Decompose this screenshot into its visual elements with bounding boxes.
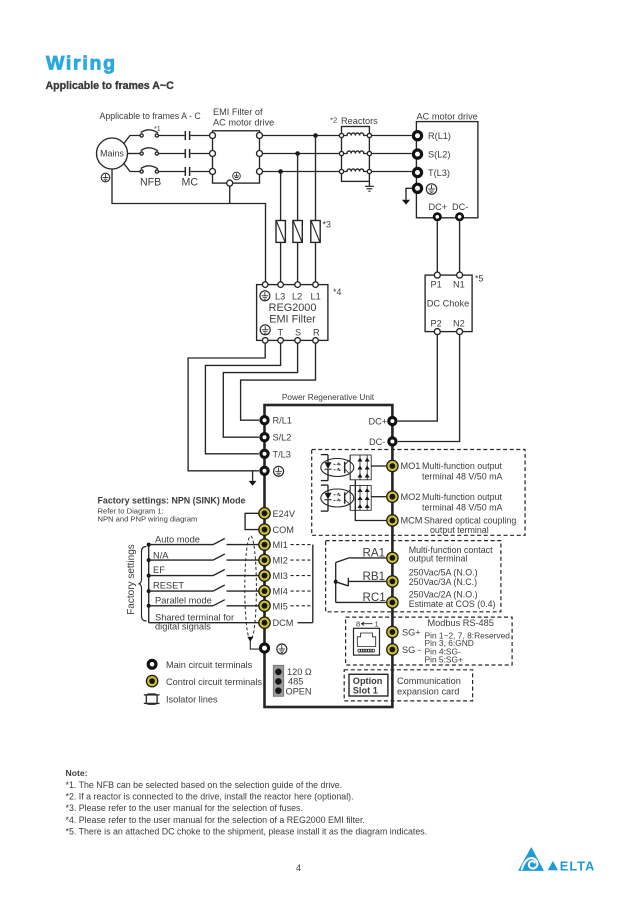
terminal R/L1 [261, 416, 292, 426]
svg-text:Factory settings: Factory settings [126, 544, 137, 615]
shield cable dashed oval [245, 536, 257, 640]
svg-text:MI3: MI3 [273, 571, 288, 581]
wire jumper E24V to COM [245, 513, 259, 529]
wire NFB to MC row2 [159, 153, 185, 155]
svg-text:SG+: SG+ [402, 628, 421, 638]
svg-text:T: T [278, 328, 284, 338]
svg-text:S: S [295, 328, 301, 338]
svg-text:*5: *5 [475, 274, 483, 284]
switch N/A [149, 550, 259, 560]
svg-text:RA1: RA1 [363, 547, 386, 560]
switch Auto mode [149, 535, 259, 545]
svg-text:terminal 48 V/50 mA: terminal 48 V/50 mA [422, 472, 502, 482]
svg-text:NPN and PNP wiring diagram: NPN and PNP wiring diagram [98, 515, 198, 524]
relay contact RC1 wire [336, 601, 386, 603]
wire function select bus vertical [312, 545, 314, 623]
svg-text:T(L3): T(L3) [428, 168, 450, 178]
fuse F3 [311, 221, 320, 243]
terminal RA1 [363, 547, 399, 564]
breaker NFB pole3 [140, 166, 158, 173]
svg-text:NFB: NFB [140, 177, 161, 189]
wire DC+ to choke P1 [436, 221, 438, 272]
terminal MI1 [259, 539, 288, 550]
terminal MI2 [259, 554, 288, 565]
reactor L1 coil [339, 133, 371, 138]
svg-text:RESET: RESET [153, 580, 184, 590]
ground arrow AC drive [402, 200, 410, 205]
svg-text:ELTA: ELTA [560, 859, 596, 873]
Power Regenerative Unit box [265, 392, 393, 707]
wire drop to fuse F1 [280, 172, 282, 221]
breaker NFB pole2 [140, 148, 158, 155]
wire MC to EMI filter row2 [190, 153, 209, 155]
reactor box *2 [342, 127, 370, 182]
svg-text:L3: L3 [275, 292, 285, 302]
terminal R(L1) [413, 131, 451, 141]
svg-text:MO2: MO2 [401, 492, 421, 502]
node switch bus MI3 [147, 574, 151, 578]
switch RESET [149, 580, 259, 591]
svg-text:output terminal: output terminal [430, 525, 489, 535]
legend control circuit terminal [146, 675, 262, 686]
svg-text:250Vac/5A (N.O.): 250Vac/5A (N.O.) [409, 568, 478, 578]
svg-text:Control circuit terminals: Control circuit terminals [166, 677, 262, 687]
svg-text:MC: MC [182, 177, 199, 189]
terminator block 120ohm 485 OPEN [273, 665, 312, 696]
svg-text:*5. There is an attached DC ch: *5. There is an attached DC choke to the… [66, 826, 428, 836]
svg-text:EMI Filter: EMI Filter [269, 314, 316, 326]
ground PE symbol at mains [101, 173, 110, 182]
wire reactors to AC drive row1 [372, 135, 412, 137]
svg-text:MO1: MO1 [401, 461, 421, 471]
wire reactors to AC drive row2 [372, 153, 412, 155]
terminal MI5 [259, 600, 288, 611]
terminal RB1 [363, 570, 399, 587]
switch EF [149, 565, 259, 576]
wire fuse F1 to REG2000 L3 [280, 242, 282, 282]
fuse F1 [276, 221, 285, 243]
terminal DC- of AC drive [456, 214, 462, 220]
wire EMI to reactors row1 [263, 135, 340, 137]
wire MI5 function select dashed [291, 605, 313, 607]
svg-text:DC Choke: DC Choke [427, 298, 469, 308]
svg-text:Applicable to frames A~C: Applicable to frames A~C [46, 80, 175, 92]
terminal RC1 [363, 591, 399, 608]
svg-text:*3. Please refer to the user m: *3. Please refer to the user manual for … [66, 803, 303, 813]
svg-text:DC-: DC- [452, 202, 468, 212]
node switch bus MI4 [147, 589, 151, 593]
wire EMI to reactors row3 [263, 171, 340, 173]
terminal S/L2 [261, 433, 292, 443]
wire mains to NFB row2 [128, 153, 140, 155]
wire fuse F3 to REG2000 L1 [315, 242, 317, 282]
relay contact pole [334, 563, 338, 603]
svg-text:EMI Filter of: EMI Filter of [213, 107, 263, 117]
node switch bus MI5 [147, 604, 151, 608]
svg-text:S(L2): S(L2) [428, 150, 450, 160]
svg-text:R(L1): R(L1) [428, 131, 451, 141]
svg-text:P1: P1 [431, 280, 442, 290]
wire MI3 function select dashed [291, 575, 313, 577]
terminal COM [259, 524, 294, 535]
terminal PE of AC drive [413, 184, 421, 192]
svg-text:RB1: RB1 [363, 570, 386, 583]
wire choke P2 to PRU DC+ [398, 335, 438, 422]
svg-text:SG -: SG - [402, 645, 421, 655]
node junction row1 fuse3 [313, 133, 318, 138]
label communication expansion card [397, 676, 461, 697]
optocoupler U1 [321, 455, 354, 481]
wire EMI filter bottom to PE wire [229, 186, 231, 203]
legend isolator lines [144, 694, 218, 705]
ground arrow at PRU PE [249, 481, 257, 486]
svg-text:MI1: MI1 [273, 540, 288, 550]
svg-text:Multi-function output: Multi-function output [422, 461, 502, 471]
wire mains to NFB row3 [124, 163, 140, 172]
breaker NFB pole1 [140, 130, 158, 137]
ground PE symbol at shield terminal [277, 644, 287, 654]
svg-text:N/A: N/A [153, 550, 169, 560]
terminal S(L2) [413, 150, 450, 160]
node switch bus MI1 [147, 543, 151, 547]
node switch bus MI2 [147, 558, 151, 562]
wire REG2000 S to PRU S/L2 [223, 343, 297, 437]
svg-text:*1. The NFB can be selected ba: *1. The NFB can be selected based on the… [66, 780, 343, 790]
wire shared terminal to DCM [149, 613, 259, 632]
ground PE symbol inside EMI filter box [233, 172, 241, 180]
terminal MCM [387, 515, 517, 535]
label factory settings NPN mode [98, 496, 246, 524]
relay contact RA1 blade [336, 558, 386, 563]
wire REG2000 T to PRU T/L3 [205, 343, 280, 453]
multi-function output dashed box [312, 450, 525, 536]
switch Parallel mode [149, 595, 259, 606]
svg-text:Power Regenerative Unit: Power Regenerative Unit [282, 392, 375, 402]
svg-text:DCM: DCM [273, 618, 294, 628]
svg-text:AC motor drive: AC motor drive [417, 112, 478, 122]
svg-text:Pin 5:SG+: Pin 5:SG+ [425, 654, 464, 664]
wire MC to EMI filter row3 [190, 171, 209, 173]
terminal shield ground [260, 644, 268, 652]
svg-text:AC motor drive: AC motor drive [213, 118, 274, 128]
svg-text:4: 4 [296, 863, 301, 873]
wire bridge to MO2 [371, 496, 386, 498]
wire MC to EMI filter row1 [190, 135, 209, 137]
mains source [97, 138, 128, 169]
svg-text:Mains: Mains [100, 149, 124, 159]
labels modbus [425, 618, 511, 664]
wire shield to ground terminal [250, 641, 259, 649]
reactor L2 coil [339, 151, 371, 156]
terminal T/L3 [261, 449, 291, 459]
svg-text:EF: EF [153, 565, 165, 575]
wire MI4 function select dashed [291, 590, 313, 592]
DC choke box [425, 272, 472, 335]
wire REG2000 R to PRU R/L1 [241, 343, 316, 420]
terminal MO2 [387, 491, 503, 512]
svg-text:E24V: E24V [273, 509, 296, 519]
terminal SG+ [387, 626, 421, 637]
svg-text:*1: *1 [154, 126, 161, 133]
fuse F2 [293, 221, 302, 243]
svg-text:P2: P2 [431, 319, 442, 329]
ground PE symbol in AC drive [426, 184, 436, 194]
svg-text:MCM: MCM [401, 516, 423, 526]
svg-text:Applicable to frames A - C: Applicable to frames A - C [100, 111, 202, 121]
terminal DC+ of AC drive [434, 214, 440, 220]
svg-text:N1: N1 [453, 280, 465, 290]
svg-text:*2. If a reactor is connected: *2. If a reactor is connected to the dri… [66, 792, 354, 802]
svg-text:DC-: DC- [369, 437, 385, 447]
svg-text:T/L3: T/L3 [273, 449, 291, 459]
legend main circuit terminal [148, 660, 252, 670]
wire fuse F2 to REG2000 L2 [297, 242, 299, 282]
svg-text:MI5: MI5 [273, 601, 288, 611]
svg-text:Main circuit terminals: Main circuit terminals [166, 660, 253, 670]
svg-text:L2: L2 [292, 292, 302, 302]
terminal DCM [259, 617, 294, 628]
svg-text:Note:: Note: [66, 768, 88, 778]
terminal DC+ of PRU [369, 417, 397, 427]
ground PE symbol bottom in REG2000 [260, 325, 270, 335]
terminal MO1 [387, 460, 503, 481]
wire MI1 function select dashed [291, 544, 313, 546]
option slot 1 box [349, 674, 388, 696]
wire EMI to reactors row2 [263, 153, 340, 155]
wire drop to fuse F3 [315, 136, 317, 221]
wire mains to NFB row1 [124, 136, 140, 145]
ground PE symbol at PRU input [274, 466, 284, 476]
node junction row2 fuse2 [295, 151, 300, 156]
wire choke N2 to PRU DC- [398, 335, 460, 442]
svg-text:*4: *4 [333, 287, 341, 297]
svg-text:1: 1 [375, 620, 379, 629]
wire REG2000 PE to PRU PE [188, 343, 265, 470]
svg-text:120 Ω: 120 Ω [287, 667, 312, 677]
svg-text:250Vac/3A (N.C.): 250Vac/3A (N.C.) [409, 577, 477, 587]
ground PE symbol top in REG2000 [260, 291, 270, 301]
svg-text:RC1: RC1 [363, 591, 386, 604]
REG2000 EMI filter box [257, 282, 328, 343]
wire reactors to AC drive row3 [372, 171, 412, 173]
optocoupler U2 [321, 485, 354, 511]
svg-text:Communication: Communication [397, 676, 461, 686]
AC motor drive box [416, 112, 478, 218]
wire drop to fuse F2 [297, 154, 299, 221]
option slot dashed box [344, 670, 472, 701]
svg-text:Auto mode: Auto mode [155, 535, 200, 545]
labels relay output [409, 545, 496, 609]
svg-text:*4. Please refer to the user m: *4. Please refer to the user manual for … [66, 815, 365, 825]
wire PE branch to ground arrow [252, 471, 254, 481]
svg-text:*3: *3 [323, 220, 331, 230]
terminal E24V [259, 508, 296, 519]
svg-text:R/L1: R/L1 [273, 416, 292, 426]
wire bridges to MCM [355, 480, 386, 521]
relay output dashed box [326, 541, 501, 612]
svg-text:L1: L1 [311, 292, 321, 302]
ground symbol below reactor box [365, 181, 374, 191]
EMI filter box of AC motor drive [210, 131, 263, 186]
wire switch bus vertical [148, 545, 150, 623]
svg-text:R: R [313, 328, 320, 338]
wire NFB to MC row3 [159, 171, 185, 173]
wire bridge to MO1 [371, 465, 386, 467]
svg-text:Wiring: Wiring [46, 52, 117, 74]
svg-text:OPEN: OPEN [286, 686, 312, 696]
contactor MC pole2 [185, 149, 189, 158]
wire DCM to bus [298, 622, 313, 624]
delta logo [518, 847, 595, 873]
wire MI2 function select dashed [291, 559, 313, 561]
svg-text:output terminal: output terminal [409, 554, 468, 564]
svg-text:MI2: MI2 [273, 556, 288, 566]
modbus dashed box [346, 617, 512, 665]
svg-text:DC+: DC+ [369, 417, 388, 427]
svg-text:Option: Option [353, 676, 383, 686]
contactor MC pole3 [185, 167, 189, 176]
svg-text:N2: N2 [453, 319, 465, 329]
svg-text:Slot 1: Slot 1 [353, 686, 378, 696]
svg-text:expansion card: expansion card [397, 687, 459, 697]
svg-text:MI4: MI4 [273, 587, 288, 597]
brace factory settings [139, 547, 147, 622]
svg-text:REG2000: REG2000 [269, 302, 317, 314]
svg-text:DC+: DC+ [429, 202, 448, 212]
terminal MI3 [259, 570, 288, 581]
svg-text:S/L2: S/L2 [273, 433, 292, 443]
svg-text:Multi-function output: Multi-function output [422, 492, 502, 502]
svg-text:COM: COM [273, 525, 294, 535]
RJ45 connector [354, 620, 380, 656]
svg-text:Parallel mode: Parallel mode [155, 595, 212, 605]
terminal SG- [387, 644, 421, 655]
node junction row3 fuse1 [278, 169, 283, 174]
terminal T(L3) [413, 168, 450, 178]
svg-text:Estimate at COS (0.4): Estimate at COS (0.4) [409, 599, 496, 609]
relay contact RB1 blade [336, 578, 386, 587]
diode bridge D1 [350, 455, 371, 480]
svg-text:485: 485 [288, 677, 303, 687]
svg-text:*2: *2 [330, 116, 337, 125]
wire PE from mains to REG2000 [112, 169, 266, 282]
svg-text:Factory settings: NPN (SINK) M: Factory settings: NPN (SINK) Mode [98, 496, 246, 506]
svg-text:Isolator lines: Isolator lines [166, 695, 218, 705]
svg-text:terminal 48 V/50 mA: terminal 48 V/50 mA [422, 502, 502, 512]
svg-text:Modbus RS-485: Modbus RS-485 [428, 618, 494, 628]
svg-text:Reactors: Reactors [341, 116, 378, 126]
terminal PE of PRU [261, 467, 268, 474]
wire DC- to choke N1 [459, 221, 461, 272]
reactor L3 coil [339, 169, 371, 174]
svg-text:8: 8 [356, 620, 360, 629]
terminal DC- of PRU [369, 437, 396, 447]
diode bridge D2 [350, 486, 371, 511]
terminal MI4 [259, 585, 288, 596]
notes [66, 768, 428, 836]
wire NFB to MC row1 [159, 135, 185, 137]
wire AC drive PE to ground [406, 188, 413, 200]
shield arrow to ground [247, 637, 253, 642]
contactor MC pole1 [185, 131, 189, 140]
